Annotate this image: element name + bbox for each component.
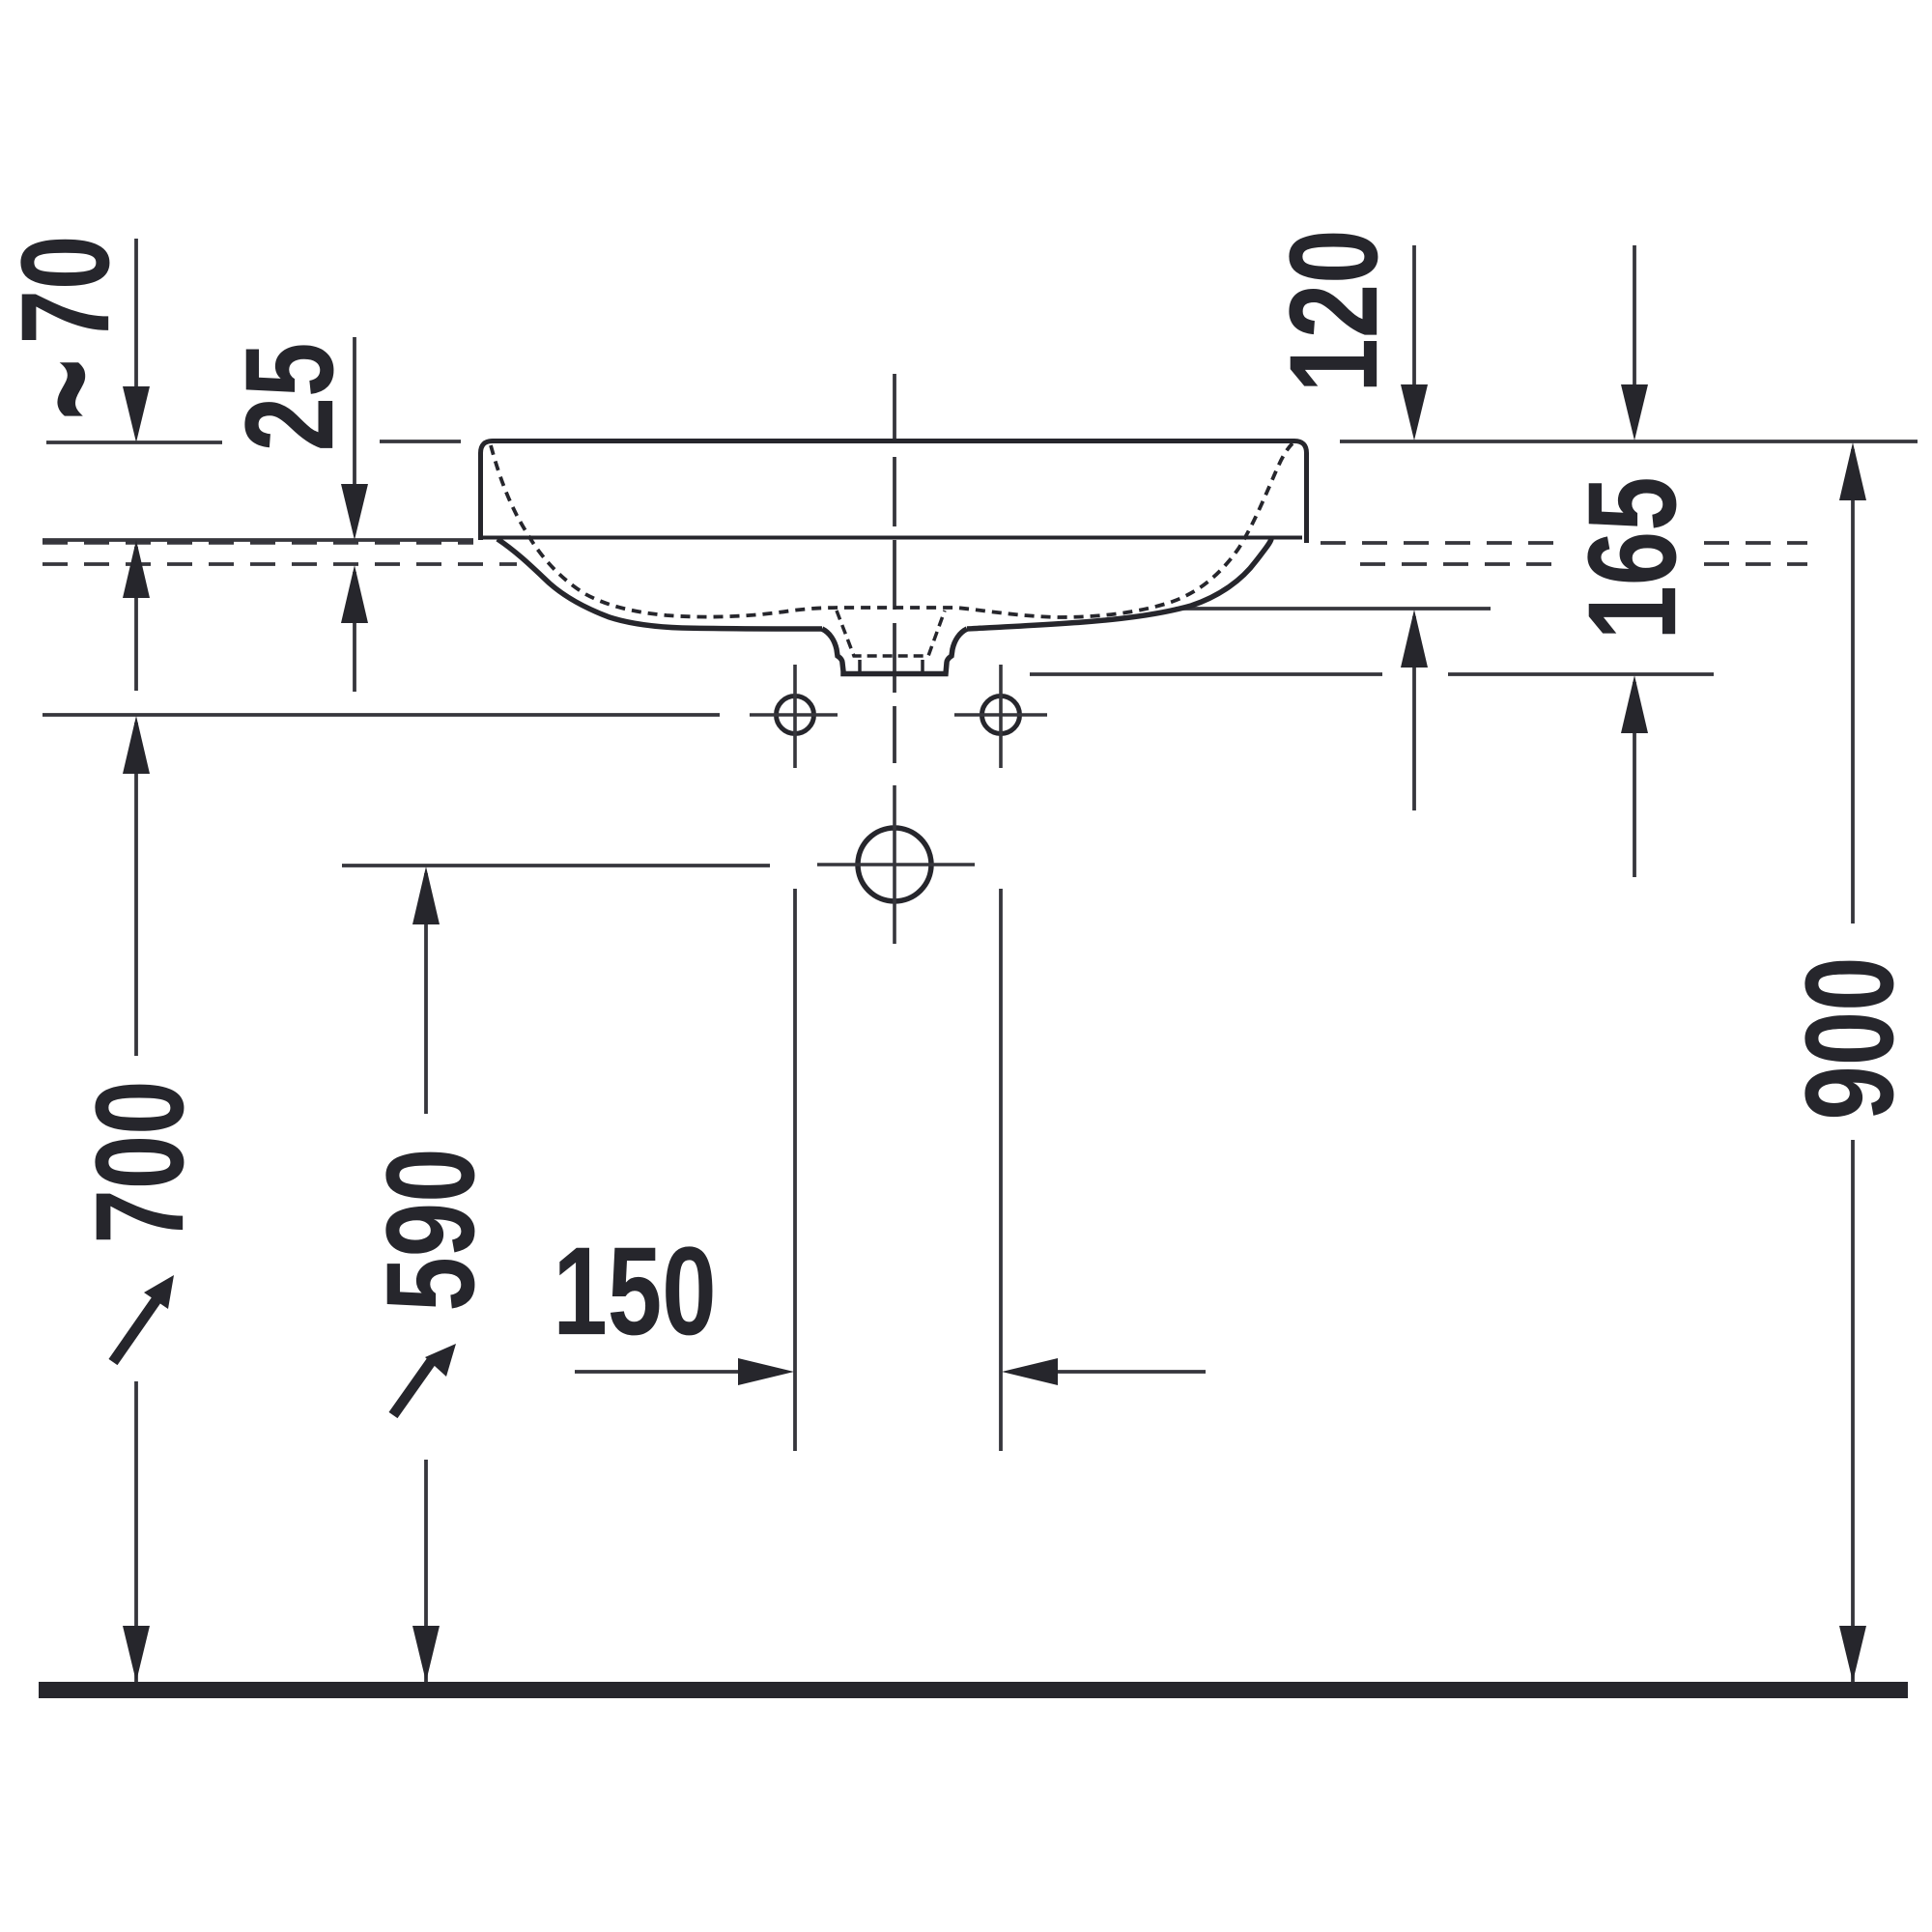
slanted pointer arrow for 700 <box>113 1298 157 1362</box>
dashed countertop lower line, right of basin (gap for 165 label) <box>1360 562 1560 566</box>
dimension 700 : lower shaft + arrow (down to floor) <box>134 1381 138 1682</box>
svg-text:590: 590 <box>359 1148 500 1311</box>
extension line at rim-top level, middle-left segment (for 25 dim) <box>380 440 461 443</box>
dimension 900 : upper arrow (up to rim-top line) <box>1851 449 1855 923</box>
extension line at rim-top level, right segment (to 900 dim) <box>1340 440 1918 443</box>
svg-text:~: ~ <box>0 358 167 420</box>
reference line at drain bottom level (for 165 dim), two segments <box>1030 672 1382 676</box>
svg-text:165: 165 <box>1561 476 1702 639</box>
drain fitting inner hidden profile (dashed trapezoid) <box>837 611 945 656</box>
reference line at faucet-hole row level (for 700 dim) <box>43 713 720 717</box>
dimension 150 : left arrow (pointing right at left hole line) <box>575 1370 746 1374</box>
dimension 590 : lower shaft + arrow (down to floor) <box>424 1460 428 1682</box>
drain fitting outer profile <box>822 629 967 674</box>
dimension 25 : upper arrow (down to countertop) <box>353 337 356 532</box>
svg-text:120: 120 <box>1263 229 1404 392</box>
hidden dashed line under countertop line, left of basin <box>43 541 473 545</box>
left faucet hole circle <box>777 696 814 734</box>
basin rim bottom edge <box>483 536 1302 540</box>
dashed countertop lower line, left of basin <box>43 562 517 566</box>
dimension ~70 : lower arrow (up to countertop) <box>134 547 138 691</box>
vertical centre line of basin <box>893 374 896 763</box>
dimension 165 : lower arrow (up to drain bottom line) <box>1633 682 1636 877</box>
dimension ~70 : upper arrow (down to rim top) <box>134 239 138 435</box>
dimension 165 : upper arrow (down to rim top) <box>1633 245 1636 433</box>
svg-text:25: 25 <box>218 343 359 452</box>
svg-text:150: 150 <box>553 1220 716 1361</box>
svg-text:900: 900 <box>1778 956 1919 1120</box>
big hole crosshair <box>817 863 975 867</box>
dimension 120 : upper arrow (down to rim top) <box>1412 245 1416 433</box>
right faucet hole circle <box>982 696 1020 734</box>
left faucet hole crosshair <box>750 713 838 717</box>
extension line dropped from left faucet hole (for 150 dim) <box>793 889 797 1451</box>
inner bowl hidden profile (dashed) <box>491 443 1293 617</box>
big hole circle <box>858 828 931 901</box>
countertop solid line, left of basin <box>43 538 473 542</box>
dimension 900 : lower shaft + arrow (down to floor) <box>1851 1140 1855 1682</box>
extension line at rim-top level, left segment (for ~70 dim) <box>46 440 222 444</box>
dimension 25 : lower arrow (up to hidden line) <box>353 572 356 692</box>
svg-text:70: 70 <box>0 236 135 345</box>
basin outer bowl profile, right half <box>967 539 1271 629</box>
dimension 120 : lower arrow (up to bowl bottom line) <box>1412 616 1416 810</box>
reference line at big-hole level (for 590 dim) <box>342 864 770 867</box>
basin outer bowl profile, left half <box>497 539 822 629</box>
extension line dropped from right faucet hole (for 150 dim) <box>999 889 1003 1451</box>
reference line at inner bowl bottom level (for 120 dim) <box>1176 607 1491 611</box>
basin rim outline (top + side edges) <box>481 441 1307 544</box>
dashed countertop upper line, right of basin (gap for 165 label) <box>1321 541 1560 545</box>
slanted pointer arrow for 590 <box>393 1359 433 1415</box>
right faucet hole crosshair <box>954 713 1047 717</box>
svg-text:700: 700 <box>69 1080 210 1243</box>
dimension 150 : right arrow (pointing left at right hole line) <box>1053 1370 1206 1374</box>
dimension 590 : upper arrow (up to big-hole line) <box>424 873 428 1114</box>
dimension 700 : upper arrow (up to hole-row line) <box>134 723 138 1056</box>
floor line <box>39 1682 1908 1698</box>
